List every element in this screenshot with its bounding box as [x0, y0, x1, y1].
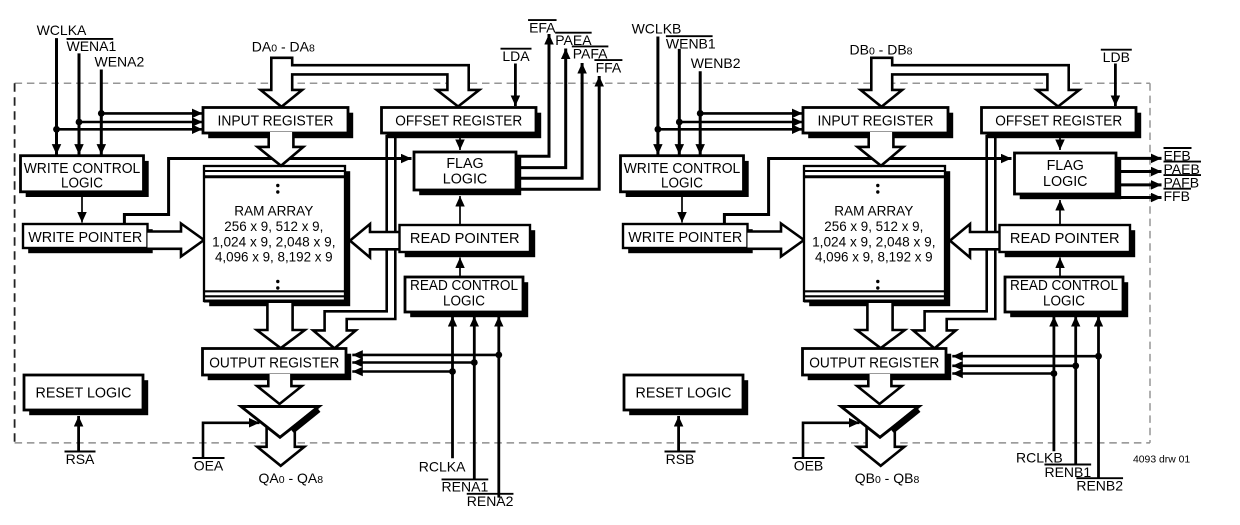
wire RCLKB branch to OUTPUT REGISTER B [952, 372, 1054, 375]
svg-text:WENB2: WENB2 [691, 55, 741, 71]
label WENA2 [95, 54, 145, 70]
svg-text:OFFSET REGISTER: OFFSET REGISTER [395, 114, 522, 130]
svg-text:RSB: RSB [666, 451, 695, 467]
label PAEB (active low) [1164, 161, 1202, 177]
bus READ POINTER A to RAM ARRAY A (hollow arrow) [350, 224, 400, 258]
output buffer B shadow [892, 409, 919, 430]
junction RENA1 branch [471, 359, 478, 366]
svg-text:OFFSET REGISTER: OFFSET REGISTER [995, 114, 1122, 130]
svg-text:FLAG: FLAG [446, 156, 483, 172]
wire WENA2 branch to INPUT REGISTER A [101, 112, 202, 115]
wire FLAG LOGIC A output PAEA [516, 49, 566, 168]
block FLAG LOGIC B [1015, 153, 1122, 199]
arrow OFFSET REGISTER A to FLAG LOGIC A [459, 137, 461, 150]
svg-text:LDA: LDA [502, 48, 530, 64]
wire OEB to output buffer B [803, 423, 860, 457]
svg-text:WENA2: WENA2 [95, 54, 145, 70]
wire WCLKA branch to INPUT REGISTER A [57, 128, 203, 131]
dashed boundary top [15, 82, 1150, 84]
junction RENB1 branch [1072, 362, 1079, 369]
svg-text:256 x 9, 512 x 9,: 256 x 9, 512 x 9, [824, 219, 923, 234]
svg-text:RSA: RSA [66, 451, 95, 467]
block WRITE CONTROL LOGIC B [621, 156, 749, 197]
svg-text:OUTPUT REGISTER: OUTPUT REGISTER [209, 355, 339, 371]
bus READ POINTER B to RAM ARRAY B (hollow arrow) [950, 224, 1000, 258]
label LDA (active low) [501, 48, 532, 64]
label RENA2 (active low) [467, 493, 514, 509]
block OUTPUT REGISTER B [803, 349, 952, 381]
label OEA (active low) [193, 457, 225, 473]
block READ POINTER A [400, 225, 536, 257]
junction RCLKA branch [449, 368, 456, 375]
arrow OFFSET REGISTER B to FLAG LOGIC B [1059, 137, 1061, 150]
arrow WRITE CONTROL LOGIC B to WRITE POINTER B [681, 193, 683, 223]
wire WENB1 vertical into WRITE CONTROL LOGIC B [678, 49, 681, 155]
label EFA (active low) [528, 19, 557, 35]
wire RCLKA branch to OUTPUT REGISTER A [352, 370, 452, 373]
bus INPUT REGISTER A to RAM ARRAY A (hollow arrow) [258, 132, 304, 166]
wire WENA2 vertical into WRITE CONTROL LOGIC A [100, 70, 103, 155]
svg-text:QA0 - QA8: QA0 - QA8 [259, 470, 324, 486]
svg-text:WCLKA: WCLKA [37, 22, 87, 38]
label RSA (active low) [65, 451, 96, 467]
label LDB (active low) [1101, 49, 1132, 65]
bus WRITE POINTER B to RAM ARRAY B (hollow arrow) [748, 224, 805, 257]
arrow READ CONTROL LOGIC B to READ POINTER B [1059, 258, 1061, 277]
wire WCLKB vertical into WRITE CONTROL LOGIC B [656, 37, 659, 155]
arrow READ POINTER A to FLAG LOGIC A [459, 196, 461, 225]
wire WCLKA vertical into WRITE CONTROL LOGIC A [55, 38, 58, 155]
wire RSA into RESET LOGIC A [77, 416, 80, 451]
svg-text:FLAG: FLAG [1047, 158, 1084, 174]
wire RENB2 branch to OUTPUT REGISTER B [952, 355, 1098, 358]
block READ CONTROL LOGIC B [1005, 277, 1128, 317]
svg-text:256 x 9, 512 x 9,: 256 x 9, 512 x 9, [224, 219, 323, 234]
bus DA0-DA8 into INPUT REGISTER A and OFFSET REGISTER A [261, 58, 480, 107]
svg-text:4093 drw 01: 4093 drw 01 [1133, 454, 1190, 465]
wire WENB1 branch to INPUT REGISTER B [679, 121, 802, 124]
wire WENA1 vertical into WRITE CONTROL LOGIC A [78, 53, 81, 154]
svg-text:QB0 - QB8: QB0 - QB8 [855, 470, 920, 486]
svg-text:OEA: OEA [194, 457, 224, 473]
svg-text:READ CONTROL: READ CONTROL [1010, 278, 1118, 294]
arrow READ CONTROL LOGIC A to READ POINTER A [459, 258, 461, 277]
svg-text:1,024 x 9, 2,048 x 9,: 1,024 x 9, 2,048 x 9, [812, 234, 935, 249]
bus RAM ARRAY A to OUTPUT REGISTER A (hollow arrow) [257, 303, 305, 348]
wire RENB2 vertical into READ CONTROL LOGIC B [1097, 316, 1100, 478]
wire FLAG LOGIC B output PAFB [1116, 183, 1162, 186]
label RENB1 (active low) [1044, 464, 1091, 480]
svg-text:DB0 - DB8: DB0 - DB8 [849, 42, 912, 58]
svg-text:OEB: OEB [794, 457, 824, 473]
svg-text:1,024 x 9, 2,048 x 9,: 1,024 x 9, 2,048 x 9, [212, 234, 335, 249]
bus QB0-QB8 output (hollow arrow) [857, 418, 904, 466]
arrow WRITE CONTROL LOGIC A to WRITE POINTER A [81, 193, 83, 223]
block WRITE POINTER A [23, 224, 153, 253]
block INPUT REGISTER B [803, 108, 953, 139]
svg-text:LOGIC: LOGIC [1043, 294, 1085, 310]
junction RENA2 branch [495, 352, 502, 359]
bus RAM ARRAY B to OUTPUT REGISTER B (hollow arrow) [857, 303, 905, 348]
svg-text:FFB: FFB [1164, 188, 1190, 204]
svg-text:4,096 x 9, 8,192 x 9: 4,096 x 9, 8,192 x 9 [815, 250, 933, 265]
wire FLAG LOGIC B output FFB [1116, 196, 1162, 199]
svg-text:LOGIC: LOGIC [61, 176, 103, 192]
bus DB0-DB8 into INPUT REGISTER B and OFFSET REGISTER B [861, 58, 1080, 107]
svg-text:RENB2: RENB2 [1076, 478, 1123, 494]
block READ CONTROL LOGIC A [405, 277, 528, 317]
block RESET LOGIC A [24, 375, 148, 415]
label RCLKB [1016, 449, 1063, 465]
label WENA1 (active low) [67, 38, 117, 54]
wire WENB2 vertical into WRITE CONTROL LOGIC B [699, 71, 702, 154]
wire FLAG LOGIC A output FFA [516, 76, 599, 189]
svg-text:EFA: EFA [529, 19, 556, 35]
wire LDB into OFFSET REGISTER B [1114, 64, 1117, 107]
svg-text:FFA: FFA [596, 59, 622, 75]
junction WENA1 branch [76, 119, 83, 126]
dashed boundary bottom [15, 442, 1150, 444]
svg-text:LOGIC: LOGIC [661, 176, 703, 192]
bus offset-register B to output-register B (hollow channel + arrow) [913, 136, 995, 348]
label PAEA (active low) [555, 32, 592, 48]
wire RENB1 vertical into READ CONTROL LOGIC B [1074, 316, 1077, 465]
label PAFA (active low) [572, 46, 609, 62]
wire RSB into RESET LOGIC B [677, 416, 680, 451]
output buffer A shadow [292, 409, 319, 430]
svg-text:READ POINTER: READ POINTER [410, 231, 520, 247]
arrow READ POINTER B to FLAG LOGIC B [1059, 200, 1061, 225]
wire RENB1 branch to OUTPUT REGISTER B [952, 364, 1075, 367]
wire RENA1 vertical into READ CONTROL LOGIC A [473, 316, 476, 479]
label OEB (active low) [793, 457, 825, 473]
block OFFSET REGISTER B [982, 108, 1142, 139]
junction WENA2 branch [98, 110, 105, 117]
block INPUT REGISTER A [203, 108, 353, 139]
bus OUTPUT REGISTER B to output buffer B (hollow arrow) [857, 374, 902, 404]
wire RCLKB vertical into READ CONTROL LOGIC B [1053, 316, 1056, 451]
block READ POINTER B [1000, 225, 1136, 257]
svg-text:WCLKB: WCLKB [632, 21, 682, 37]
block FLAG LOGIC A [414, 152, 521, 195]
svg-text:WRITE POINTER: WRITE POINTER [628, 230, 742, 246]
svg-text:LOGIC: LOGIC [1043, 174, 1088, 190]
svg-text:4,096 x 9, 8,192 x 9: 4,096 x 9, 8,192 x 9 [215, 250, 333, 265]
svg-text:RAM ARRAY: RAM ARRAY [834, 204, 913, 219]
RAM ARRAY B [804, 166, 950, 306]
svg-text:READ CONTROL: READ CONTROL [410, 278, 518, 294]
label RENB2 (active low) [1076, 478, 1123, 494]
svg-text:WRITE POINTER: WRITE POINTER [28, 230, 142, 246]
block OFFSET REGISTER A [382, 108, 542, 139]
block RESET LOGIC B [624, 375, 748, 415]
svg-text:RESET LOGIC: RESET LOGIC [36, 385, 132, 401]
bus OUTPUT REGISTER A to output buffer A (hollow arrow) [257, 374, 302, 404]
label WENB2 [691, 55, 741, 71]
junction WENB2 branch [697, 110, 704, 117]
dashed boundary right [1149, 83, 1151, 443]
RAM ARRAY A [204, 166, 350, 306]
label WCLKA [37, 22, 87, 38]
wire WRITE POINTER A to FLAG LOGIC A [124, 159, 411, 226]
svg-text:WENB1: WENB1 [666, 36, 716, 52]
wire FLAG LOGIC B output PAEB [1116, 170, 1162, 173]
svg-text:RCLKA: RCLKA [419, 459, 466, 475]
svg-text:OUTPUT REGISTER: OUTPUT REGISTER [809, 355, 939, 371]
label WENB1 (active low) [666, 36, 716, 52]
block WRITE CONTROL LOGIC A [21, 156, 149, 197]
svg-text:READ POINTER: READ POINTER [1010, 231, 1120, 247]
output buffer A (tri-state triangle) [241, 407, 319, 438]
svg-text:LOGIC: LOGIC [443, 294, 485, 310]
wire FLAG LOGIC A output PAFA [516, 63, 582, 178]
svg-text:WRITE CONTROL: WRITE CONTROL [624, 161, 741, 177]
svg-text:WRITE CONTROL: WRITE CONTROL [24, 161, 141, 177]
svg-text:RAM ARRAY: RAM ARRAY [234, 204, 313, 219]
wire FLAG LOGIC A output EFA [516, 34, 549, 156]
junction WENB1 branch [676, 119, 683, 126]
svg-text:RENA2: RENA2 [467, 493, 514, 509]
junction WCLKA branch [53, 126, 60, 133]
svg-text:LOGIC: LOGIC [443, 172, 488, 188]
bus INPUT REGISTER B to RAM ARRAY B (hollow arrow) [858, 132, 904, 166]
label RSB (active low) [665, 451, 696, 467]
wire RENA2 branch to OUTPUT REGISTER A [352, 354, 499, 357]
svg-text:DA0 - DA8: DA0 - DA8 [252, 39, 315, 55]
wire WRITE POINTER B to FLAG LOGIC B [724, 159, 1011, 226]
junction WCLKB branch [655, 126, 662, 133]
wire FLAG LOGIC B output EFB [1116, 157, 1162, 160]
label RENA1 (active low) [442, 479, 489, 495]
wire RENA1 branch to OUTPUT REGISTER A [352, 361, 474, 364]
svg-text:LDB: LDB [1103, 49, 1130, 65]
wire LDA into OFFSET REGISTER A [514, 64, 517, 107]
wire WCLKB branch to INPUT REGISTER B [658, 128, 803, 131]
svg-text:INPUT REGISTER: INPUT REGISTER [218, 114, 334, 130]
label FFA (active low) [594, 59, 622, 75]
output buffer B (tri-state triangle) [841, 407, 919, 438]
wire WENB2 branch to INPUT REGISTER B [700, 112, 802, 115]
svg-text:INPUT REGISTER: INPUT REGISTER [818, 114, 934, 130]
wire RENA2 vertical into READ CONTROL LOGIC A [497, 316, 500, 497]
svg-text:RESET LOGIC: RESET LOGIC [636, 385, 732, 401]
wire RCLKA vertical into READ CONTROL LOGIC A [451, 316, 454, 458]
label RCLKA [419, 459, 466, 475]
label FFB (active low) [1164, 188, 1192, 204]
svg-text:WENA1: WENA1 [67, 38, 117, 54]
dashed boundary left [14, 83, 16, 443]
wire OEA to output buffer A [203, 423, 260, 457]
label EFB (active low) [1164, 147, 1192, 163]
bus QA0-QA8 output (hollow arrow) [257, 418, 304, 466]
bus WRITE POINTER A to RAM ARRAY A (hollow arrow) [148, 224, 205, 257]
junction RCLKB branch [1051, 370, 1058, 377]
label PAFB (active low) [1164, 174, 1202, 190]
block WRITE POINTER B [623, 224, 753, 253]
label WCLKB [632, 21, 682, 37]
wire WENA1 branch to INPUT REGISTER A [79, 121, 203, 124]
block OUTPUT REGISTER A [203, 349, 352, 381]
junction RENB2 branch [1095, 353, 1102, 360]
bus offset-register A to output-register A (hollow channel + arrow) [313, 136, 395, 348]
